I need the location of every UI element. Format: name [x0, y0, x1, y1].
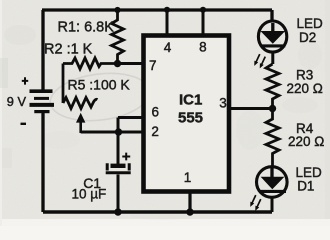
- faint scan smudges: [0, 25, 322, 220]
- wire R2-R5 left link: [62, 64, 65, 104]
- wire pin 4: [166, 10, 169, 34]
- LED D1: [257, 167, 288, 198]
- wire D2 to R3: [271, 51, 274, 64]
- label R5 value: [68, 77, 131, 93]
- wire pin 1: [188, 193, 191, 212]
- LED D1 emission arrows: [248, 194, 262, 212]
- resistor R3: [266, 64, 279, 109]
- label 555: [178, 110, 203, 127]
- wire pin 8: [202, 10, 205, 34]
- wire left vertical (battery top): [41, 10, 44, 90]
- svg-text:1: 1: [184, 170, 192, 185]
- svg-text:6: 6: [152, 105, 160, 120]
- battery B1 9V: [30, 91, 55, 111]
- label R3: [296, 67, 313, 82]
- svg-text:555: 555: [178, 110, 203, 127]
- node junction cap/rail: [114, 208, 121, 215]
- pin 4: [164, 40, 172, 55]
- pin 7: [149, 58, 157, 73]
- wire pin 6: [118, 116, 143, 119]
- wire pin 7: [118, 62, 144, 65]
- wire bottom rail: [43, 210, 272, 214]
- label IC1: [179, 92, 202, 109]
- label C1: [83, 175, 101, 191]
- pin 6: [152, 105, 160, 120]
- pin 2: [151, 124, 159, 139]
- node junction R1 top: [114, 7, 120, 13]
- svg-text:220 Ω: 220 Ω: [288, 134, 324, 149]
- pin 1: [184, 170, 192, 185]
- label LED D1: [296, 165, 323, 194]
- wire vertical pins6/2/cap: [117, 118, 120, 165]
- svg-text:8: 8: [199, 39, 207, 54]
- svg-text:LED: LED: [296, 165, 323, 180]
- svg-text:R2 :1 K: R2 :1 K: [44, 42, 93, 58]
- capacitor C1: [106, 163, 131, 173]
- potentiometer R5: [63, 98, 98, 109]
- svg-text:R5 :100 K: R5 :100 K: [68, 77, 131, 93]
- label LED D2: [297, 16, 324, 45]
- svg-text:9 V: 9 V: [7, 94, 27, 109]
- svg-text:IC1: IC1: [179, 92, 202, 109]
- wire left vertical (battery bottom): [41, 113, 44, 212]
- pin 3: [219, 96, 227, 111]
- svg-text:R1: 6.8K: R1: 6.8K: [58, 20, 115, 36]
- label R2 value: [44, 42, 93, 58]
- svg-text:D2: D2: [299, 30, 316, 45]
- label R4: [296, 121, 314, 136]
- svg-text:3: 3: [219, 96, 227, 111]
- wire pin 2: [81, 131, 143, 134]
- resistor R2: [63, 58, 118, 69]
- LED D2: [258, 21, 286, 52]
- wire top rail: [42, 8, 272, 11]
- wire top rail to LED D2: [270, 10, 273, 22]
- node junction pin3/R3/R4: [269, 105, 276, 112]
- svg-text:D1: D1: [297, 179, 314, 194]
- LED D2 emission arrows: [252, 53, 267, 69]
- node junction pin4 rail: [164, 7, 170, 13]
- node junction pin8 rail: [200, 7, 206, 13]
- node junction pin2/cap: [115, 128, 122, 135]
- svg-text:2: 2: [151, 124, 159, 139]
- svg-text:4: 4: [164, 40, 172, 55]
- pin 8: [199, 39, 207, 54]
- R5 wiper arrow: [76, 113, 85, 133]
- resistor R4: [266, 109, 279, 168]
- svg-text:7: 7: [149, 58, 157, 73]
- node junction R1/R2/pin7: [114, 60, 121, 67]
- wire D1 to bottom rail: [271, 197, 274, 212]
- label R1 value: [58, 20, 115, 36]
- resistor R1: [112, 10, 124, 64]
- label C1 value: [72, 187, 107, 202]
- capacitor + sign: [122, 153, 130, 161]
- svg-text:LED: LED: [297, 16, 324, 31]
- battery - sign: [21, 123, 27, 125]
- wire pin 3: [229, 107, 273, 110]
- svg-text:10 µF: 10 µF: [72, 187, 107, 202]
- battery + sign: [22, 77, 28, 84]
- svg-text:220 Ω: 220 Ω: [287, 81, 323, 96]
- node junction pin1/rail: [186, 208, 193, 215]
- wire cap to bottom rail: [117, 175, 120, 213]
- label R3 value: [287, 81, 323, 96]
- label battery 9V: [7, 94, 27, 109]
- label R4 value: [288, 134, 324, 149]
- op-amp U1 IC1 555 box: [144, 36, 230, 192]
